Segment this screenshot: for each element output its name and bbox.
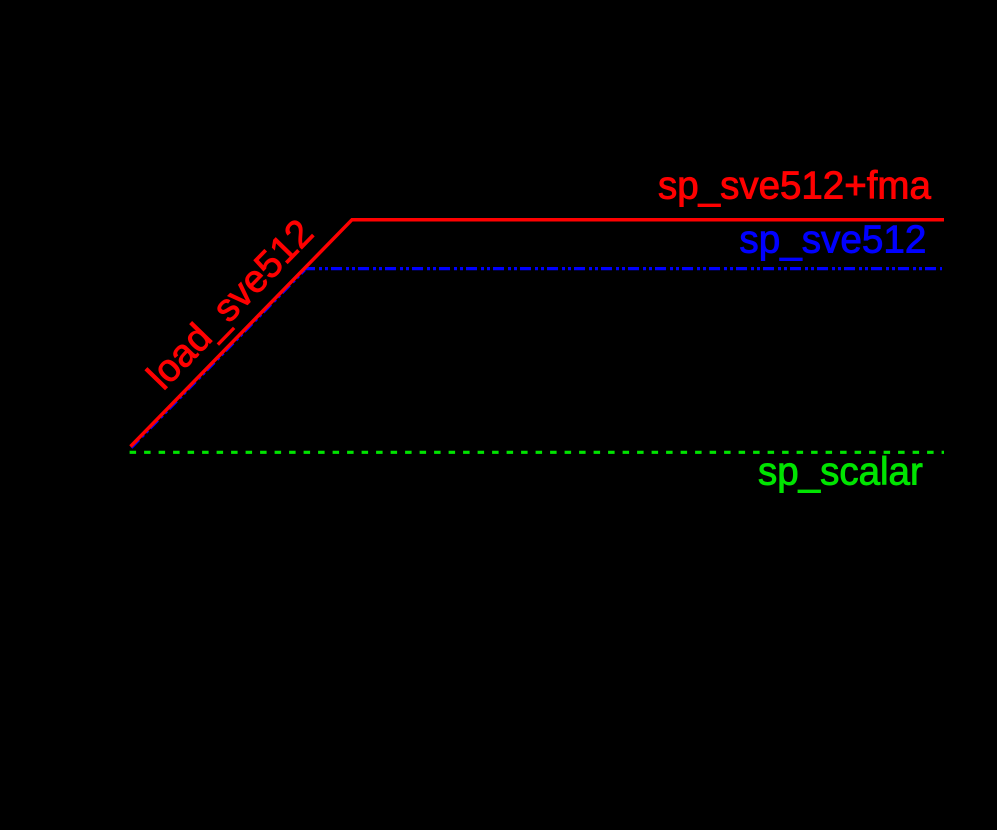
- svg-text:sp_sve512: sp_sve512: [739, 218, 926, 261]
- green roofline sp_scalar (dashed): [130, 451, 944, 454]
- red roofline sp_sve512+fma: [131, 220, 945, 447]
- svg-text:sp_scalar: sp_scalar: [758, 451, 923, 494]
- blue ceiling horizontal: [304, 267, 942, 270]
- blue roofline sp_sve512: diagonal memory-bound part (dash-dot, mostly hidden under red): [131, 270, 304, 448]
- svg-text:sp_sve512+fma: sp_sve512+fma: [658, 164, 931, 207]
